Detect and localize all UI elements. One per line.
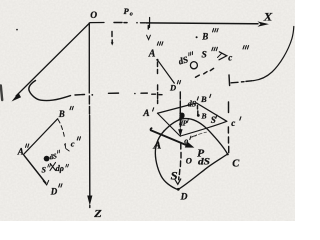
svg-text:S: S [42, 165, 47, 174]
svg-text:O: O [90, 11, 97, 21]
svg-text:B: B [58, 109, 65, 119]
svg-text:A: A [142, 109, 149, 119]
svg-text:c: c [231, 118, 235, 128]
svg-text:P: P [124, 6, 130, 16]
svg-text:C: C [232, 159, 240, 170]
svg-text:dS: dS [188, 99, 197, 108]
svg-text:S: S [202, 50, 207, 60]
svg-text:dρ: dρ [56, 164, 64, 173]
svg-text:c: c [71, 138, 75, 148]
svg-text:A: A [152, 140, 162, 151]
svg-text:dP: dP [179, 120, 188, 128]
svg-text:o: o [130, 12, 133, 18]
svg-text:dS: dS [198, 157, 210, 167]
svg-text:X: X [263, 9, 274, 23]
svg-text:O: O [186, 156, 192, 166]
svg-text:o: o [184, 137, 188, 146]
svg-text:B: B [201, 31, 208, 41]
svg-text:S: S [171, 171, 178, 183]
svg-text:A: A [148, 48, 156, 59]
svg-text:c: c [228, 53, 232, 63]
svg-text:D: D [169, 82, 176, 92]
svg-text:S: S [211, 115, 216, 125]
svg-text:B: B [200, 94, 207, 104]
svg-text:D: D [180, 193, 188, 203]
svg-text:Z: Z [93, 208, 102, 220]
svg-text:D: D [50, 186, 58, 196]
svg-text:A: A [17, 147, 24, 157]
svg-text:B: B [201, 112, 207, 121]
